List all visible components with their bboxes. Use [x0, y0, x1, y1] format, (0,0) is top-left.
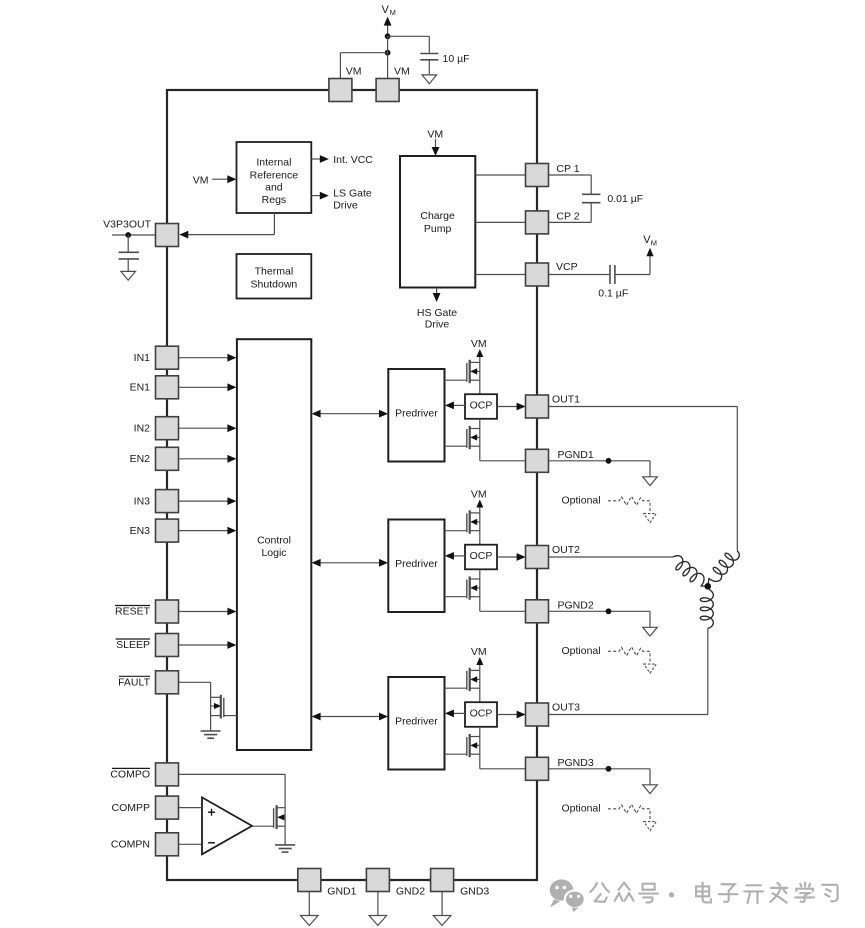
node: PGND1 sense junction	[606, 458, 612, 464]
wire: OUT2 net	[549, 556, 673, 558]
block: Internal Reference and Regs	[237, 142, 312, 213]
svg-text:COMPN: COMPN	[111, 839, 150, 851]
svg-text:10 µF: 10 µF	[443, 53, 470, 65]
wire: CP1 to 0.01uF cap	[549, 175, 592, 194]
wire+arrows: control logic to predriver 3 (bidirectional)	[312, 713, 388, 721]
label IN3	[134, 495, 151, 507]
pin PGND2	[526, 600, 549, 623]
label LS Gate Drive	[333, 188, 372, 212]
transistor: low-side NMOS 3	[445, 734, 480, 757]
wire: LS source to PGND3	[480, 754, 526, 769]
ground (comparator FET, hatched)	[275, 845, 295, 852]
svg-text:Predriver: Predriver	[395, 558, 438, 570]
text Control Logic	[257, 535, 291, 559]
pin IN1	[156, 346, 179, 369]
capacitor 0.01uF	[582, 194, 600, 202]
text Predriver 2	[395, 558, 438, 570]
text OCP 1	[470, 399, 493, 411]
svg-text:IN3: IN3	[134, 495, 151, 507]
pin VM (1)	[329, 79, 352, 102]
svg-text:V3P3OUT: V3P3OUT	[103, 218, 151, 230]
VM supply arrow (top)	[384, 17, 392, 37]
label RESET (with overline)	[115, 606, 151, 618]
wire+arrow: internal reference to V3P3OUT pin	[179, 213, 274, 239]
wire: OUT1 net	[549, 407, 738, 551]
block: Control Logic	[237, 339, 311, 750]
svg-text:EN3: EN3	[130, 525, 151, 537]
wire: HS phase node to OCP 3	[479, 670, 481, 702]
pin FAULT	[156, 671, 179, 694]
svg-text:PGND2: PGND2	[558, 600, 594, 612]
label 10uF	[443, 53, 470, 65]
wire: junction to 10uF cap	[388, 36, 430, 53]
wire: OCP to LS drain 1	[479, 419, 481, 446]
ground (GND2)	[369, 916, 387, 926]
ground (GND1)	[301, 916, 319, 926]
pin EN2	[156, 447, 179, 470]
svg-text:OUT3: OUT3	[552, 702, 580, 714]
svg-text:V: V	[382, 4, 390, 16]
VM supply label V_M (top)	[382, 4, 396, 17]
pin RESET	[156, 600, 179, 623]
label PGND3	[558, 757, 594, 769]
wire: HS phase node to OCP 2	[479, 513, 481, 545]
svg-text:IN2: IN2	[134, 422, 151, 434]
ground (PGND1)	[643, 477, 658, 486]
wire+arrows: control logic to predriver 2 (bidirectional)	[312, 559, 388, 567]
text OCP 3	[470, 707, 493, 719]
ground (V3P3OUT cap)	[121, 271, 136, 280]
svg-text:CP 2: CP 2	[556, 211, 579, 223]
label V_M (VCP)	[643, 234, 657, 248]
svg-text:Optional: Optional	[562, 802, 601, 814]
label Optional 3	[562, 802, 601, 814]
svg-text:PGND1: PGND1	[558, 449, 594, 461]
label 0.01uF	[607, 193, 643, 205]
wire+arrow: EN3 to control logic	[179, 527, 237, 535]
wire: OCP to LS drain 3	[479, 727, 481, 754]
block: OCP 2	[465, 545, 497, 570]
text Thermal Shutdown	[251, 265, 298, 290]
wire: VM junctions vertical	[387, 36, 389, 52]
wire: V3P3OUT stub	[112, 234, 156, 236]
label VM pin 2	[394, 66, 410, 78]
wire+arrow: LS Gate Drive output	[311, 192, 329, 200]
svg-text:VM: VM	[193, 175, 209, 187]
node: PGND2 sense junction	[606, 608, 612, 614]
pin VM (2)	[376, 79, 399, 102]
transistor: high-side NMOS 3	[445, 668, 480, 691]
label COMPO (with overline)	[110, 768, 150, 780]
pin COMPO	[156, 763, 179, 786]
svg-text:OCP: OCP	[470, 399, 493, 411]
wire: charge pump to CP1	[475, 174, 525, 176]
wire: junction to VM pin 1	[340, 53, 387, 79]
block: Thermal Shutdown	[237, 254, 312, 299]
node: top VM junction lower	[385, 50, 391, 56]
label Optional 1	[562, 494, 601, 506]
label GND3	[460, 886, 489, 898]
label CP 2	[556, 211, 579, 223]
transistor: FAULT open-drain NMOS	[211, 695, 237, 719]
label VM (high-side 2)	[471, 488, 487, 500]
svg-text:HS Gate: HS Gate	[417, 307, 457, 319]
ground (PGND3)	[643, 785, 658, 794]
label OUT1	[552, 394, 580, 406]
svg-text:COMPP: COMPP	[111, 802, 150, 814]
svg-text:PGND3: PGND3	[558, 757, 594, 769]
ground (GND3)	[433, 916, 451, 926]
label EN3	[130, 525, 151, 537]
wire: LS source to PGND2	[480, 597, 526, 612]
label PGND1	[558, 449, 594, 461]
wire: OCP to LS drain 2	[479, 569, 481, 596]
label GND2	[396, 886, 425, 898]
wire+arrow: OCP to predriver 2	[445, 552, 465, 560]
wire+arrow: IN2 to control logic	[179, 424, 237, 432]
pin COMPP	[156, 796, 179, 819]
wire+arrow: Int. VCC output	[311, 155, 329, 163]
label FAULT (with overline)	[118, 676, 150, 688]
svg-text:Internal: Internal	[256, 157, 291, 169]
wire: GND3 to ground	[441, 892, 443, 916]
wire: junction to VM pin 2	[387, 53, 389, 79]
svg-text:VM: VM	[471, 646, 487, 658]
wire+arrow: RESET to control logic	[179, 608, 237, 616]
pin PGND1	[526, 449, 549, 472]
pin VCP	[526, 263, 549, 286]
svg-text:VM: VM	[427, 129, 443, 141]
ground (FAULT FET, hatched)	[201, 731, 221, 738]
pin PGND3	[526, 757, 549, 780]
ground (PGND2)	[643, 627, 658, 636]
wire+arrow: OCP to OUT1 pin	[497, 403, 526, 411]
pin COMPN	[156, 833, 179, 856]
wire: FET source to ground	[284, 826, 286, 845]
svg-text:Optional: Optional	[562, 645, 601, 657]
wire+arrow: IN1 to control logic	[179, 354, 237, 362]
inductor: motor winding phase 2	[668, 553, 711, 592]
pin IN3	[156, 490, 179, 513]
svg-text:M: M	[651, 239, 657, 248]
block: Predriver 1	[388, 369, 444, 462]
wire: VCP to 0.1uF cap	[549, 274, 610, 276]
svg-text:Control: Control	[257, 535, 291, 547]
label 0.1uF	[598, 288, 628, 300]
label V3P3OUT	[103, 218, 151, 230]
svg-text:OCP: OCP	[470, 707, 493, 719]
svg-text:Pump: Pump	[424, 223, 452, 235]
wire: PGND1 to ground	[549, 461, 651, 477]
wire: 0.01uF cap to CP2	[549, 203, 592, 222]
wire+arrow: OCP to OUT2 pin	[497, 553, 526, 561]
label GND1	[327, 886, 356, 898]
wire: PGND3 to ground	[549, 769, 651, 785]
transistor: low-side NMOS 2	[445, 576, 480, 599]
label VCP	[556, 261, 578, 273]
wire: charge pump to VCP	[475, 274, 525, 276]
wire: GND2 to ground	[377, 892, 379, 916]
wire+arrow: VM to HS drain 1	[476, 349, 483, 362]
svg-text:COMPO: COMPO	[110, 769, 150, 781]
label Optional 2	[562, 645, 601, 657]
svg-text:Shutdown: Shutdown	[251, 278, 298, 290]
ground (10uF cap)	[422, 75, 437, 84]
text Internal Reference and Regs	[250, 157, 299, 207]
svg-text:EN1: EN1	[130, 382, 151, 394]
svg-text:GND2: GND2	[396, 886, 425, 898]
svg-text:M: M	[390, 8, 396, 17]
pin EN1	[156, 376, 179, 399]
wire+arrow: OCP to predriver 3	[445, 710, 465, 718]
label SLEEP (with overline)	[116, 639, 150, 651]
svg-text:IN1: IN1	[134, 352, 151, 364]
logo: WeChat watermark	[550, 879, 585, 912]
text Charge Pump	[420, 210, 455, 235]
capacitor (V3P3OUT bypass)	[119, 252, 139, 271]
resistor: optional sense R3 (dashed)	[608, 804, 656, 830]
pin SLEEP	[156, 634, 179, 657]
arrow: VM (VCP pull-up)	[646, 248, 653, 256]
text OCP 2	[470, 550, 493, 562]
wire: 0.1uF cap to VM	[615, 256, 650, 275]
wire+arrow: VM into charge pump	[432, 139, 440, 156]
svg-text:and: and	[265, 182, 283, 194]
label EN1	[130, 382, 151, 394]
svg-text:Reference: Reference	[250, 170, 299, 182]
svg-text:Thermal: Thermal	[255, 265, 294, 277]
svg-text:Logic: Logic	[261, 547, 286, 559]
wire: FAULT to pull-down FET	[179, 682, 211, 731]
inductor: motor winding phase 3	[700, 586, 713, 628]
wire: LS source to PGND1	[480, 446, 526, 461]
block: OCP 1	[465, 394, 497, 419]
svg-text:FAULT: FAULT	[118, 677, 150, 689]
block: Predriver 3	[388, 677, 444, 770]
svg-text:Int. VCC: Int. VCC	[333, 154, 373, 166]
block: Predriver 2	[388, 520, 444, 613]
capacitor 10uF	[420, 54, 438, 75]
resistor: optional sense R2 (dashed)	[608, 647, 656, 673]
pin GND2	[366, 869, 389, 892]
capacitor 0.1uF	[610, 265, 615, 284]
svg-text:GND3: GND3	[460, 886, 489, 898]
wire: charge pump to CP2	[475, 221, 525, 223]
pin CP1	[526, 164, 549, 187]
svg-text:SLEEP: SLEEP	[116, 639, 150, 651]
pin IN2	[156, 417, 179, 440]
pin GND3	[431, 869, 454, 892]
node: motor star point	[705, 583, 712, 590]
svg-text:EN2: EN2	[130, 453, 151, 465]
resistor: optional sense R1 (dashed)	[608, 496, 656, 522]
wire: OUT3 net	[549, 628, 708, 714]
label VM (high-side 3)	[471, 646, 487, 658]
block: OCP 3	[465, 702, 497, 727]
wire+arrow: OCP to OUT3 pin	[497, 711, 526, 719]
svg-text:RESET: RESET	[115, 606, 151, 618]
label CP 1	[556, 163, 579, 175]
svg-text:0.1 µF: 0.1 µF	[598, 288, 628, 300]
label EN2	[130, 453, 151, 465]
text Predriver 3	[395, 716, 438, 728]
wire: HS phase node to OCP 1	[479, 362, 481, 394]
inductor: motor winding phase 1	[702, 546, 742, 590]
node: top VM junction upper	[385, 33, 391, 39]
svg-text:OCP: OCP	[470, 550, 493, 562]
svg-text:VCP: VCP	[556, 261, 578, 273]
svg-text:Predriver: Predriver	[395, 716, 438, 728]
svg-text:OUT1: OUT1	[552, 394, 580, 406]
label Int. VCC	[333, 154, 373, 166]
svg-text:LS Gate: LS Gate	[333, 188, 372, 200]
wire: COMPN to comparator -	[179, 843, 203, 845]
wire+arrows: control logic to predriver 1 (bidirectional)	[312, 410, 388, 418]
pin CP2	[526, 211, 549, 234]
text: watermark 公众号 · 电子开发学习	[590, 883, 837, 903]
wire: COMPO net	[179, 774, 286, 826]
label IN1	[134, 352, 151, 364]
wire+arrow: SLEEP to control logic	[179, 641, 237, 649]
wire+arrow: VM into internal reference	[212, 175, 236, 183]
svg-text:0.01 µF: 0.01 µF	[607, 193, 643, 205]
svg-text:OUT2: OUT2	[552, 544, 580, 556]
node: V3P3OUT junction	[125, 232, 131, 238]
svg-text:GND1: GND1	[327, 886, 356, 898]
wire: PGND2 to ground	[549, 611, 651, 627]
label PGND2	[558, 600, 594, 612]
wire+arrow: EN1 to control logic	[179, 383, 237, 391]
svg-text:VM: VM	[394, 66, 410, 78]
label OUT2	[552, 544, 580, 556]
label COMPP	[111, 802, 150, 814]
transistor: high-side NMOS 1	[445, 360, 480, 383]
node: PGND3 sense junction	[606, 766, 612, 772]
transistor: comparator output NMOS	[274, 805, 286, 829]
pin GND1	[298, 869, 321, 892]
wire+arrow: OCP to predriver 1	[445, 402, 465, 410]
text Predriver 1	[395, 408, 438, 420]
block: Charge Pump	[400, 156, 475, 288]
transistor: low-side NMOS 1	[445, 426, 480, 449]
IC boundary box	[167, 90, 537, 880]
wire: comparator output to FET gate	[252, 825, 274, 827]
label IN2	[134, 422, 151, 434]
svg-text:Optional: Optional	[562, 494, 601, 506]
label COMPN	[111, 839, 150, 851]
svg-text:VM: VM	[471, 488, 487, 500]
pin OUT1	[526, 395, 549, 418]
label HS Gate Drive	[417, 307, 457, 331]
pin V3P3OUT	[156, 224, 179, 247]
op-amp: comparator	[202, 797, 252, 854]
pin EN3	[156, 519, 179, 542]
wire+arrow: HS Gate Drive output	[433, 288, 441, 302]
svg-text:Regs: Regs	[262, 194, 287, 206]
svg-text:VM: VM	[471, 338, 487, 350]
svg-text:Drive: Drive	[333, 199, 358, 211]
label VM (high-side 1)	[471, 338, 487, 350]
wire+arrow: IN3 to control logic	[179, 497, 237, 505]
wire: GND1 to ground	[308, 892, 310, 916]
label VM (charge pump)	[427, 129, 443, 141]
svg-text:CP 1: CP 1	[556, 163, 579, 175]
label OUT3	[552, 702, 580, 714]
transistor: high-side NMOS 2	[445, 510, 480, 533]
pin OUT3	[526, 703, 549, 726]
wire: V3P3OUT to cap	[127, 235, 129, 252]
svg-text:VM: VM	[346, 66, 362, 78]
svg-text:Drive: Drive	[425, 318, 450, 330]
wire+arrow: VM to HS drain 2	[476, 500, 483, 513]
label VM pin 1	[346, 66, 362, 78]
label VM (into internal reference)	[193, 175, 209, 187]
svg-text:Charge: Charge	[420, 210, 455, 222]
wire+arrow: EN2 to control logic	[179, 455, 237, 463]
svg-text:Predriver: Predriver	[395, 408, 438, 420]
wire: COMPP to comparator +	[179, 807, 203, 809]
wire+arrow: VM to HS drain 3	[476, 657, 483, 670]
pin OUT2	[526, 546, 549, 569]
